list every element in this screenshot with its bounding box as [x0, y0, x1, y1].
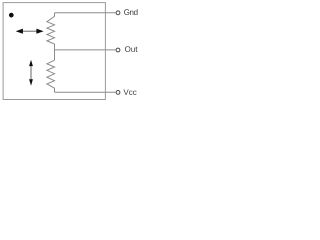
label Out [125, 46, 137, 52]
reference dot [9, 13, 14, 18]
label Gnd [124, 9, 137, 15]
terminal Gnd [116, 11, 120, 15]
horizontal double arrow (X movement) [16, 29, 44, 34]
enclosure box (module outline) [3, 3, 105, 100]
terminal Vcc [116, 91, 120, 95]
wire (Gnd net) [55, 12, 116, 14]
resistor R2 (lower pot half) [47, 60, 55, 92]
label Vcc [123, 89, 136, 95]
wire (Out net) [55, 49, 116, 51]
vertical double arrow (Y movement) [29, 60, 33, 86]
resistor R1 (upper pot half) [47, 13, 55, 44]
terminal Out [116, 48, 120, 52]
wire (Vcc net) [55, 91, 116, 93]
wire (wiper connector) [54, 44, 56, 60]
